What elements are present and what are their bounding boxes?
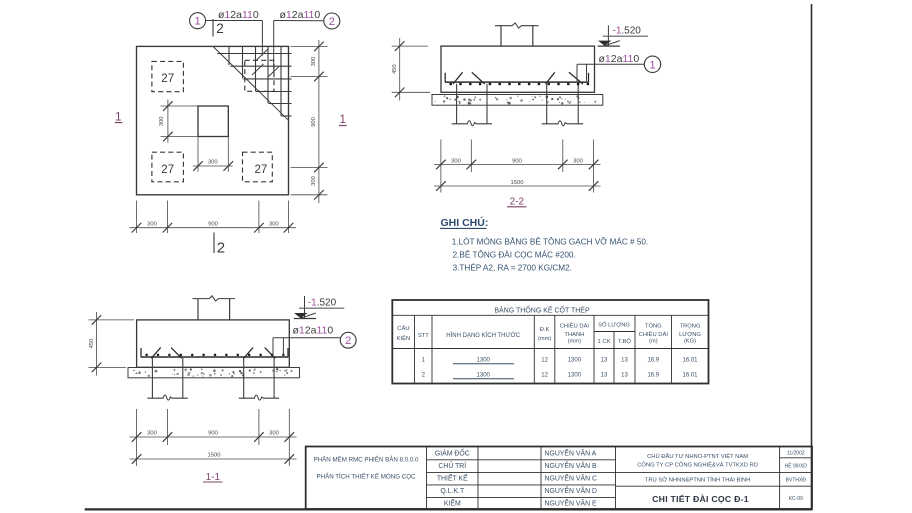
svg-text:1-1: 1-1	[206, 472, 221, 483]
svg-text:16.01: 16.01	[682, 373, 698, 379]
callout text o12a110 sec1	[293, 324, 334, 336]
svg-text:2.BÊ TÔNG ĐÀI CỌC MÁC #200.: 2.BÊ TÔNG ĐÀI CỌC MÁC #200.	[453, 250, 576, 260]
pile label 27 bottom-left	[161, 164, 174, 176]
sheet bottom border	[85, 508, 813, 510]
svg-text:300: 300	[451, 158, 461, 164]
note line 3	[453, 263, 572, 273]
svg-text:ø12a110: ø12a110	[599, 53, 640, 65]
section 2-2 height dim 450	[392, 38, 430, 101]
section mark 1 left	[115, 111, 123, 123]
svg-text:16.9: 16.9	[647, 373, 659, 379]
svg-text:CHỦ ĐẦU TƯ NHNO-PTNT VIỆT NA: CHỦ ĐẦU TƯ NHNO-PTNT VIỆT NAM	[647, 452, 748, 460]
svg-text:300: 300	[573, 158, 583, 164]
svg-text:13: 13	[601, 357, 608, 363]
svg-text:1 CK: 1 CK	[598, 339, 611, 345]
svg-text:12: 12	[541, 373, 548, 379]
svg-text:-1.520: -1.520	[308, 298, 337, 309]
table header TRONG LUONG	[679, 324, 701, 345]
svg-text:300: 300	[311, 57, 317, 67]
section 2-2 column top break	[495, 23, 539, 28]
section 2-2 level mark -1.520	[598, 25, 648, 46]
svg-text:300: 300	[269, 431, 279, 437]
pile outline bottom-left (27)	[152, 152, 184, 182]
svg-text:ø12a110: ø12a110	[293, 324, 334, 336]
svg-text:(m): (m)	[649, 339, 658, 345]
svg-text:ø12a110: ø12a110	[218, 9, 259, 21]
svg-text:13: 13	[621, 357, 628, 363]
drawing title CHI TIET DAI COC D-1	[652, 494, 749, 504]
svg-text:1300: 1300	[477, 373, 491, 379]
svg-text:12: 12	[541, 357, 548, 363]
section 2-2 column stub	[501, 26, 533, 47]
svg-text:CÔNG TY CP CÔNG NGHIỆ&VÀ TVTKX: CÔNG TY CP CÔNG NGHIỆ&VÀ TVTKXD RD	[637, 460, 758, 468]
svg-text:300: 300	[159, 116, 165, 126]
section 2-2 bottom rebar mesh	[445, 72, 589, 85]
svg-text:900: 900	[208, 221, 218, 227]
svg-text:(mm): (mm)	[568, 339, 582, 345]
table header DK	[538, 327, 552, 342]
svg-text:NGUYỄN VĂN C: NGUYỄN VĂN C	[545, 474, 597, 483]
title block name 2	[545, 461, 597, 470]
svg-text:-1.520: -1.520	[613, 26, 642, 37]
title block he	[785, 462, 808, 470]
section 2-2 dim row 1500	[434, 180, 601, 191]
svg-text:900: 900	[311, 117, 317, 127]
section 2-2 left pile	[452, 84, 492, 126]
svg-text:TỔNG: TỔNG	[645, 323, 662, 330]
section 2-2 lean concrete bed	[432, 95, 603, 106]
svg-text:TRỌNG: TRỌNG	[680, 324, 701, 330]
svg-text:ø12a110: ø12a110	[280, 9, 321, 21]
svg-text:SỐ LƯỢNG: SỐ LƯỢNG	[598, 322, 630, 329]
section 1-1 left pile	[147, 358, 187, 400]
section label 1-1	[203, 472, 223, 483]
title block bv	[786, 478, 807, 484]
table header TBO	[618, 338, 631, 345]
svg-text:(mm): (mm)	[538, 336, 552, 342]
section 1-1 dim row 1500	[130, 453, 297, 464]
title block investor line 2	[637, 460, 758, 468]
pile label 27 bottom-right	[255, 164, 268, 176]
pile outline top-left (27)	[152, 61, 184, 91]
table title	[494, 304, 590, 314]
table header TONG	[639, 323, 669, 345]
svg-text:Đ.K: Đ.K	[540, 327, 550, 333]
svg-text:T.BỘ: T.BỘ	[618, 338, 631, 345]
note line 2	[453, 250, 576, 260]
callout leader 2 plan	[252, 21, 324, 78]
column width dim 300 horizontal	[193, 137, 233, 172]
section 1-1 bottom rebar mesh	[141, 348, 289, 359]
pile cap plan outline	[137, 46, 289, 194]
svg-text:11/2002: 11/2002	[787, 451, 805, 457]
svg-text:BVTHXĐ: BVTHXĐ	[786, 478, 807, 484]
svg-text:1300: 1300	[568, 357, 582, 363]
svg-text:HỆ 99/XD: HỆ 99/XD	[785, 462, 808, 470]
svg-text:300: 300	[147, 221, 157, 227]
pile outline bottom-right (27)	[243, 152, 273, 182]
note line 1	[452, 237, 648, 247]
section 1-1 dim row 300 900 300	[130, 409, 297, 466]
svg-text:1.LÓT MÓNG BẰNG BÊ TÔNG GẠCH V: 1.LÓT MÓNG BẰNG BÊ TÔNG GẠCH VỠ MÁC # 50…	[452, 237, 648, 247]
section mark 2 top	[213, 19, 224, 37]
title block role 4	[440, 488, 465, 495]
svg-text:3.THÉP A2, RA = 2700 KG/CM2.: 3.THÉP A2, RA = 2700 KG/CM2.	[453, 263, 572, 273]
title block role 3	[437, 473, 468, 483]
svg-text:Q.L.K.T: Q.L.K.T	[440, 488, 465, 495]
svg-text:2: 2	[217, 239, 225, 256]
title block name 1	[545, 448, 597, 457]
svg-text:450: 450	[89, 339, 95, 349]
section 1-1 level mark -1.520	[294, 296, 345, 319]
title block project	[645, 477, 751, 484]
svg-text:2-2: 2-2	[510, 197, 525, 208]
svg-text:450: 450	[392, 64, 398, 74]
svg-text:16.01: 16.01	[682, 357, 698, 363]
svg-text:CHI TIẾT ĐÀI CỌC Đ-1: CHI TIẾT ĐÀI CỌC Đ-1	[652, 494, 749, 504]
plan rebar hatch grid	[217, 46, 291, 116]
title block name 4	[545, 486, 597, 495]
callout bubble 1 sec2	[644, 56, 660, 72]
svg-text:HÌNH DẠNG KÍCH THƯỚC: HÌNH DẠNG KÍCH THƯỚC	[446, 332, 520, 339]
svg-text:13: 13	[601, 373, 608, 379]
callout text o12a110 plan-1	[218, 9, 259, 21]
svg-text:2: 2	[329, 16, 335, 28]
pile label 27 top-left	[161, 73, 174, 85]
svg-text:1: 1	[339, 114, 345, 126]
svg-text:1500: 1500	[208, 453, 221, 459]
callout leader 1 sec2	[577, 64, 644, 81]
svg-text:CHỦ TRÌ: CHỦ TRÌ	[438, 461, 466, 470]
svg-text:13: 13	[621, 373, 628, 379]
section 1-1 column stub	[198, 299, 230, 320]
callout leader 1 plan	[206, 21, 268, 61]
svg-text:TRỤ SỞ NHNN&PTNN TỈNH THÁI BÌN: TRỤ SỞ NHNN&PTNN TỈNH THÁI BÌNH	[645, 477, 751, 484]
svg-text:NGUYỄN VĂN A: NGUYỄN VĂN A	[545, 448, 597, 457]
title block investor line 1	[647, 452, 748, 460]
svg-text:300: 300	[147, 431, 157, 437]
section 2-2 cap outline	[441, 46, 595, 92]
title block role 5	[444, 499, 461, 508]
svg-text:CẤU: CẤU	[397, 325, 409, 332]
section 1-1 lean concrete bed	[128, 368, 300, 378]
title block role 2	[438, 461, 466, 470]
table row 2	[422, 373, 699, 379]
svg-text:STT: STT	[418, 333, 429, 339]
table header STT	[418, 333, 429, 339]
svg-text:300: 300	[269, 221, 279, 227]
title block sheet no	[789, 496, 803, 502]
section label 2-2	[507, 197, 527, 208]
svg-text:PHÂN TÍCH THIẾT KẾ MÓNG CỌC: PHÂN TÍCH THIẾT KẾ MÓNG CỌC	[316, 473, 416, 480]
svg-text:1: 1	[195, 16, 201, 28]
title block date	[787, 451, 805, 457]
callout text o12a110 plan-2	[280, 9, 321, 21]
section 1-1 height dim 450	[89, 312, 135, 376]
table header SO LUONG	[598, 322, 630, 329]
svg-text:NGUYỄN VĂN E: NGUYỄN VĂN E	[545, 499, 597, 508]
svg-text:27: 27	[161, 73, 174, 85]
callout bubble 2 sec1	[340, 332, 356, 348]
steel table grid	[392, 300, 708, 384]
svg-text:KIỂM: KIỂM	[444, 499, 461, 508]
table header CHIEU DAI THANH	[560, 323, 590, 345]
svg-text:KIỆN: KIỆN	[397, 334, 411, 342]
svg-text:CHIỀU DÀI: CHIỀU DÀI	[639, 331, 669, 338]
callout leader 2 sec1	[273, 338, 340, 356]
svg-text:16.9: 16.9	[647, 357, 659, 363]
plan diagonal break line	[213, 46, 289, 120]
svg-text:1500: 1500	[511, 180, 524, 186]
table row 1	[422, 357, 699, 363]
callout text o12a110 sec2	[599, 53, 640, 65]
svg-text:1300: 1300	[477, 357, 491, 363]
callout bubble 1 plan	[190, 13, 206, 29]
svg-text:2: 2	[345, 335, 351, 347]
column width dim 300 vertical	[159, 100, 198, 143]
title block software line 2	[316, 473, 416, 480]
plan right dim 300 900 300	[291, 40, 328, 203]
svg-text:27: 27	[161, 164, 174, 176]
section mark 1 right	[339, 114, 347, 126]
svg-text:THANH: THANH	[564, 332, 584, 338]
svg-text:1: 1	[115, 111, 121, 123]
svg-text:KC-09: KC-09	[789, 496, 803, 502]
section 2-2 right pile	[542, 84, 584, 126]
pile outline top-right under hatch	[245, 60, 274, 91]
svg-text:(KG): (KG)	[684, 339, 696, 345]
section 1-1 cap outline	[137, 320, 290, 367]
svg-text:CHIỀU DÀI: CHIỀU DÀI	[560, 323, 590, 330]
table header 1CK	[598, 339, 611, 345]
section 1-1 column top break	[193, 296, 236, 301]
section 2-2 dim row 300 900 300	[434, 140, 601, 193]
svg-text:1300: 1300	[568, 373, 582, 379]
svg-text:NGUYỄN VĂN B: NGUYỄN VĂN B	[545, 461, 597, 470]
callout bubble 2 plan	[324, 13, 340, 29]
svg-text:300: 300	[311, 176, 317, 186]
column section square	[198, 106, 228, 137]
svg-text:NGUYỄN VĂN D: NGUYỄN VĂN D	[545, 486, 597, 495]
section mark 2 bottom	[214, 233, 225, 257]
table header CAU KIEN	[397, 325, 411, 342]
title block software line 1	[314, 455, 419, 463]
svg-text:1: 1	[649, 59, 655, 71]
table header HINH DANG	[446, 332, 520, 339]
svg-text:300: 300	[208, 160, 218, 166]
sheet right border	[811, 4, 813, 509]
svg-text:27: 27	[255, 164, 268, 176]
title block name 5	[545, 499, 597, 508]
plan bottom dim 300 900 300	[130, 201, 297, 234]
svg-text:900: 900	[512, 158, 522, 164]
svg-text:PHẦN MỀM RMC PHIÊN BẢN 8.0.0.0: PHẦN MỀM RMC PHIÊN BẢN 8.0.0.0	[314, 455, 419, 463]
svg-text:900: 900	[208, 431, 218, 437]
notes heading GHI CHU	[440, 216, 488, 229]
svg-text:2: 2	[216, 21, 224, 36]
title block name 3	[545, 474, 597, 483]
section 1-1 right pile	[239, 358, 279, 400]
title block role 1	[435, 447, 470, 457]
title block grid	[306, 447, 812, 510]
svg-text:GHI CHÚ:: GHI CHÚ:	[441, 216, 489, 229]
svg-text:LƯỢNG: LƯỢNG	[679, 332, 701, 338]
